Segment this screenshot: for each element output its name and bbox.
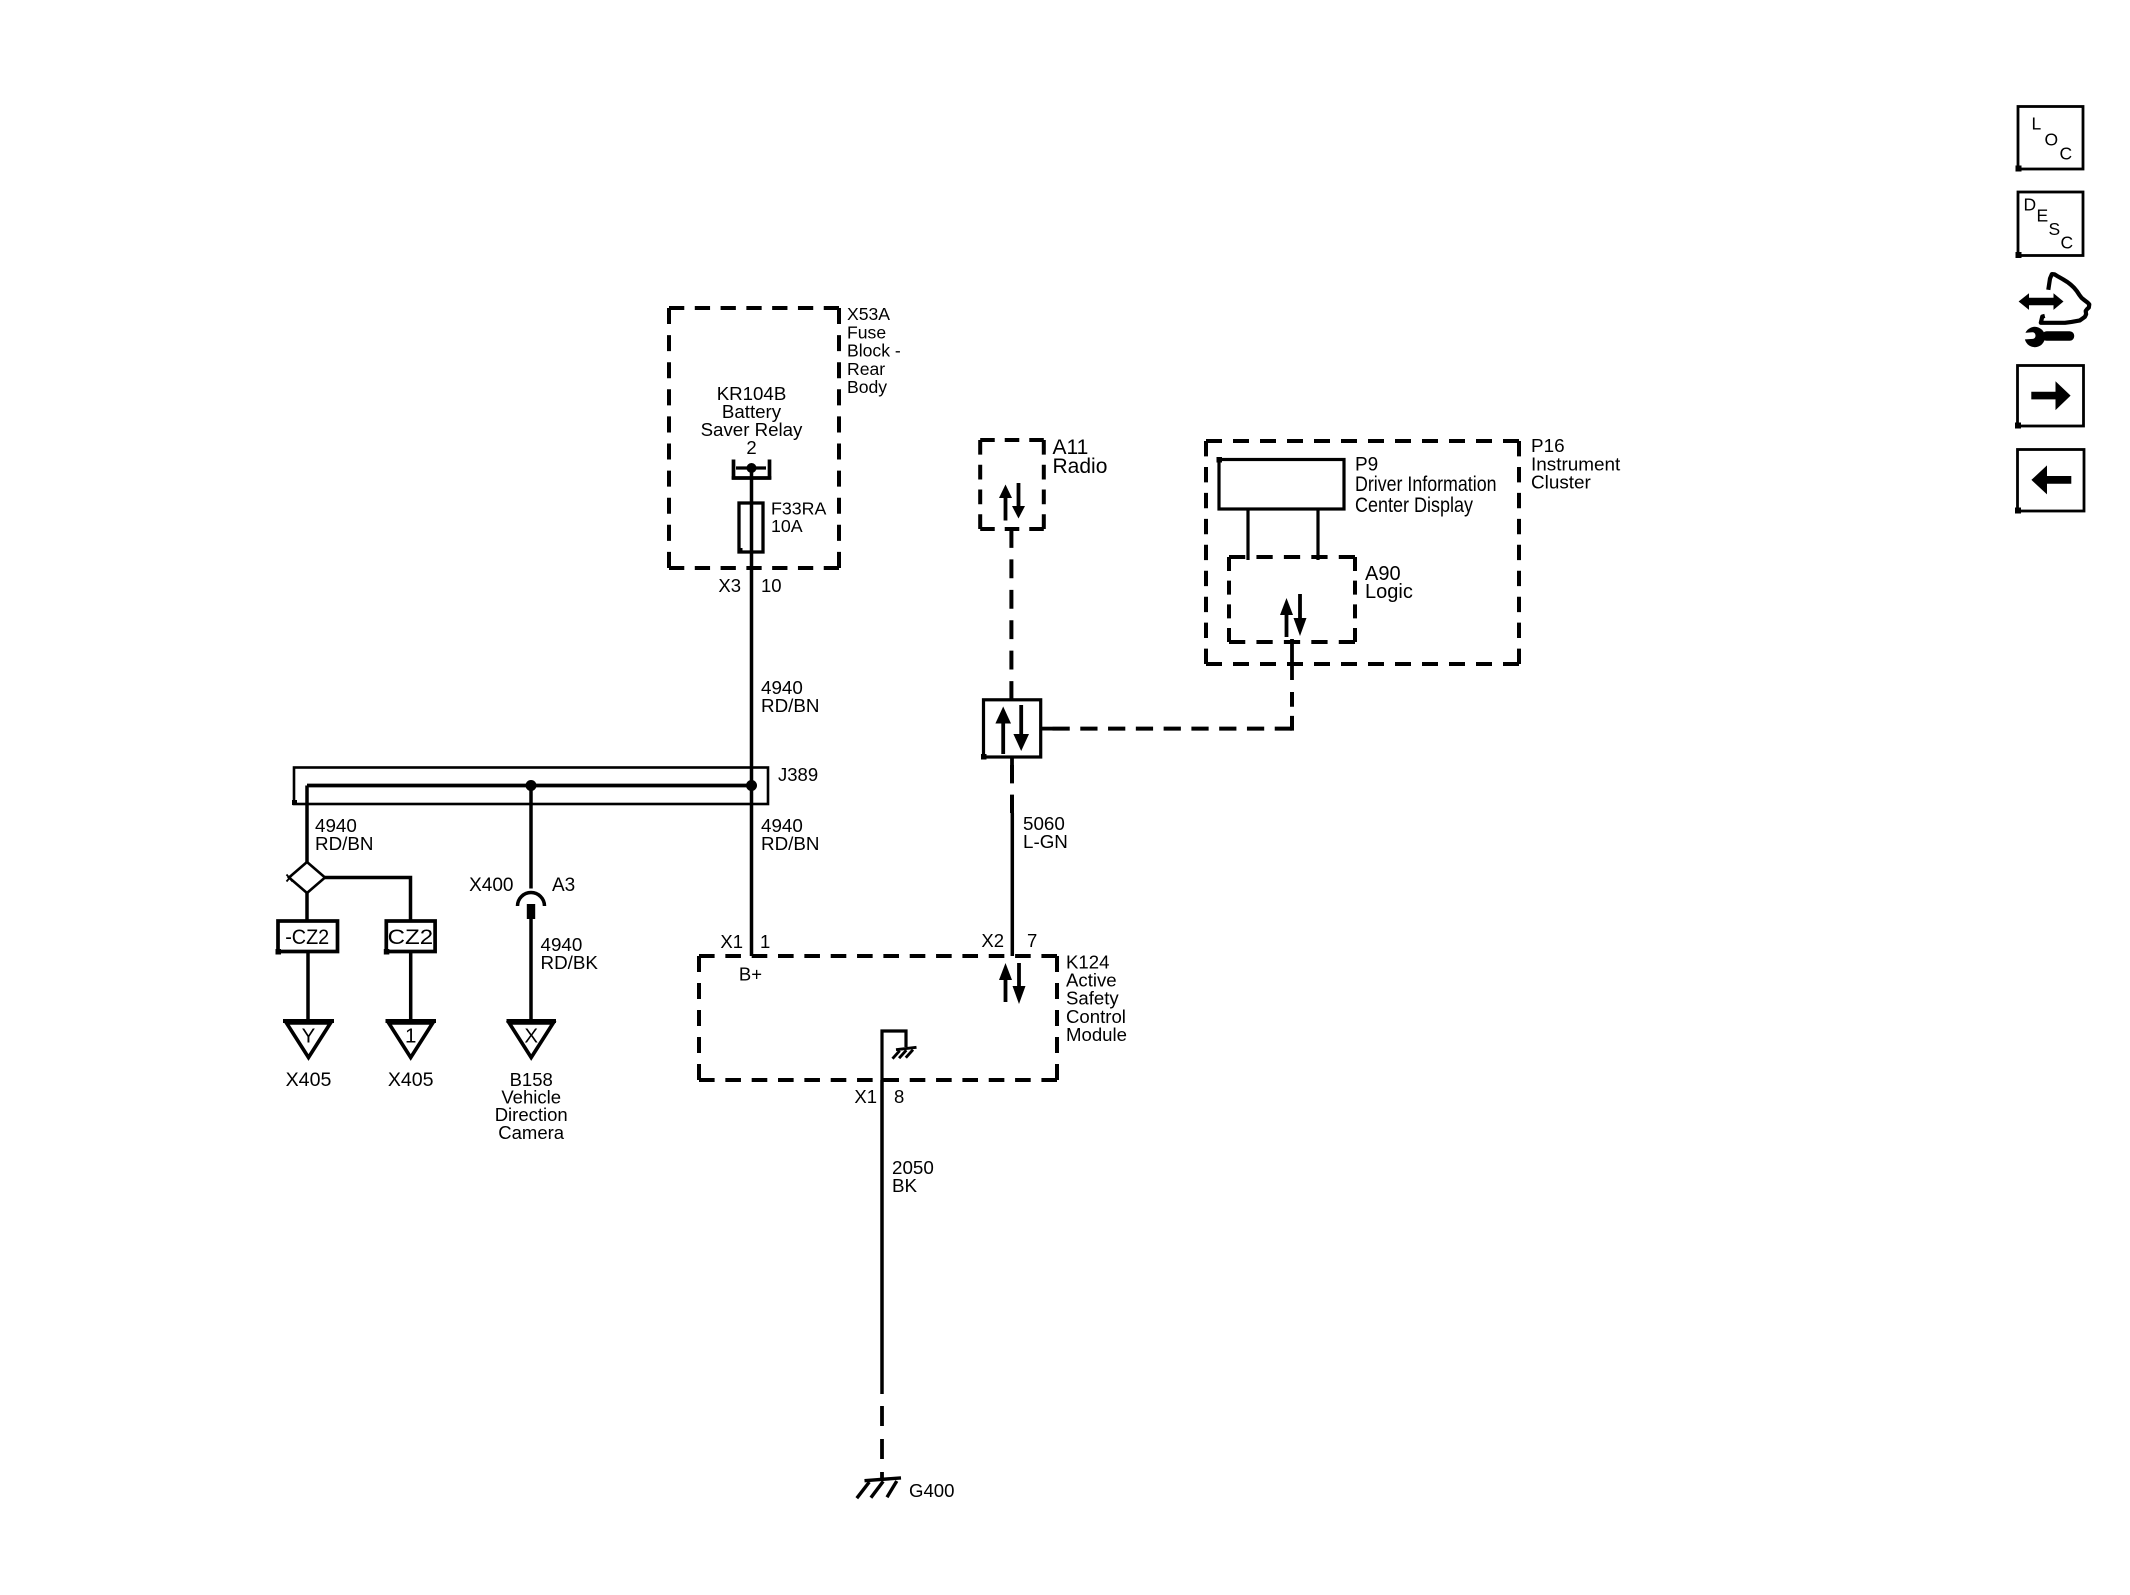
svg-text:X1: X1 [720,931,743,952]
wire 2050 BK from K124 [880,1080,884,1394]
icon vehicle double arrow [2019,293,2064,310]
wire 5060 L-GN to K124 pin X2-7 [1011,813,1015,956]
wire diamond to -CZ2 [305,893,309,920]
down arrow in A11 [1012,483,1025,519]
svg-text:5060L-GN: 5060L-GN [1023,813,1068,852]
splice pack J389 outline [294,768,768,805]
svg-text:X: X [524,1025,538,1048]
svg-text:A3: A3 [552,875,575,896]
junction dot J389 center [526,780,537,791]
svg-text:Driver Information: Driver Information [1355,473,1497,496]
icon box DESC [2016,192,2084,258]
icon box LOC [2016,107,2084,172]
fuse F33RA symbol [739,503,763,552]
wire diamond branch to CZ2 [325,878,411,921]
svg-text:X405: X405 [388,1069,434,1091]
svg-text:C: C [2061,233,2074,253]
svg-text:D: D [2024,195,2037,215]
svg-text:X405: X405 [286,1069,332,1091]
dashed wire riser to A90 logic [1290,692,1294,731]
svg-text:CZ2: CZ2 [388,926,434,949]
svg-text:S: S [2049,219,2061,239]
wire CZ2 to triangle 1 [409,952,413,1023]
wire P9 to A90 right [1316,509,1319,560]
gateway right stub [1041,727,1053,731]
dashed wire gateway to 5060 [1010,765,1014,813]
svg-text:J389: J389 [778,764,818,785]
wire J389 to diamond splice [305,786,309,863]
svg-text:O: O [2045,130,2059,150]
instrument cluster P16 dashed outline [1206,441,1519,664]
serial data gateway box [984,700,1041,757]
svg-text:X3: X3 [718,575,741,596]
junction dot relay pin 2 [747,463,757,473]
inline connector X400/A3 arc [518,893,545,906]
off-page triangle Y [283,1021,334,1058]
down arrow in A90 [1294,594,1307,636]
off-page triangle 1 [386,1021,437,1058]
svg-text:X400: X400 [469,875,513,896]
svg-text:X1: X1 [854,1086,877,1107]
down arrow in K124 [1013,963,1026,1004]
svg-text:L: L [2032,114,2042,134]
svg-text:1: 1 [760,931,770,952]
icon box arrow right [2015,366,2084,429]
junction dot J389 right [746,780,757,791]
solid stub below A90 [1290,639,1294,680]
dashed wire to G400 [880,1406,884,1479]
wire relay to J389 through fuse F33RA [750,468,754,786]
up arrow in K124 [999,963,1012,1002]
asterisk mark at diamond [287,875,293,882]
svg-text:X2: X2 [981,930,1004,951]
svg-text:Center Display: Center Display [1355,494,1473,517]
wire X400 to triangle X [529,919,533,1023]
dashed serial data wire A11 to gateway box [1009,529,1013,700]
logic module A90 dashed outline [1229,557,1355,642]
wire -CZ2 to triangle Y [306,952,310,1023]
internal ground hook in K124 [882,1031,906,1080]
icon box arrow left [2015,450,2084,514]
wire P9 to A90 left [1246,509,1249,560]
internal chassis ground symbol [893,1047,917,1058]
up arrow in A90 [1280,598,1293,637]
connector option box CZ2 [386,921,435,952]
icon wrench [2020,327,2074,347]
diamond inline splice [289,862,325,893]
off-page triangle X [507,1021,557,1058]
down arrow in gateway box [1013,705,1029,751]
ground G400 symbol [857,1478,901,1498]
wire J389 to K124 pin X1-1 [750,786,754,957]
svg-text:10: 10 [761,575,782,596]
svg-text:G400: G400 [909,1480,955,1501]
svg-text:Y: Y [302,1025,316,1048]
svg-text:B+: B+ [739,964,762,985]
inline connector X400/A3 pin [527,904,535,919]
up arrow in A11 [999,485,1012,521]
active safety control module K124 dashed outline [699,956,1057,1080]
radio A11 dashed outline [980,440,1044,529]
relay KR104B contact symbol [732,460,772,480]
gateway bottom stub [1010,757,1014,765]
svg-text:8: 8 [894,1086,904,1107]
svg-text:2: 2 [746,437,756,458]
dashed wire gateway to instrument cluster [1053,727,1293,731]
up arrow in gateway box [995,707,1011,755]
splice pack J389 bus bar [307,784,752,788]
connector option box -CZ2 [278,921,338,952]
svg-text:E: E [2037,206,2049,226]
icon vehicle outline [2041,274,2090,323]
fuse block X53A dashed outline [669,308,839,568]
display P9 box [1219,460,1344,510]
wire J389 to X400 connector [529,786,533,889]
svg-text:1: 1 [405,1025,416,1048]
svg-text:C: C [2060,144,2073,164]
svg-text:7: 7 [1027,930,1037,951]
svg-text:-CZ2: -CZ2 [285,926,329,949]
